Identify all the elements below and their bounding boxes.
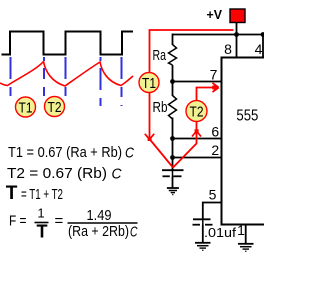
capacitor C lead between plates [172,170,174,177]
svg-text:=: = [55,213,64,230]
resistor Rb [169,96,177,120]
svg-text:4: 4 [255,41,263,57]
svg-text:5: 5 [209,187,217,203]
formula T2 = 0.67 (Rb) C [7,165,122,183]
svg-text:C: C [130,223,138,240]
svg-text:.01uf: .01uf [204,225,236,240]
junction dot (pin 6 node) [170,136,175,141]
wire: capacitor to ground [172,177,174,189]
output square waveform [2,32,134,55]
svg-text:1.49: 1.49 [87,207,112,224]
T2 discharge current path (red) [173,88,218,168]
capacitor .01uf top plate [193,218,211,220]
timing dashed line t4 [121,57,123,106]
wire: .01uf to ground [202,225,204,243]
timing dashed line t1 [43,57,45,96]
timing dashed line t2 [65,57,67,96]
pin 4 stub [262,35,264,58]
wire: Rb to capacitor C [172,118,174,171]
svg-text:F =: F = [9,213,27,230]
capacitor C (timing) top plate [162,169,184,171]
pin 1 stub [245,225,247,244]
svg-text:7: 7 [210,67,218,83]
svg-text:T1 = 0.67 (Ra + Rb): T1 = 0.67 (Ra + Rb) [8,144,122,161]
svg-text:Rb: Rb [153,99,168,116]
junction dot (pin 7 node) [170,79,175,84]
label T2 (discharge interval) [45,97,65,117]
formula F = 1/T = 1.49/((Ra+2Rb)C) [9,206,138,242]
svg-text:T: T [37,222,48,242]
svg-text:C: C [125,145,134,162]
label T1 (charge interval) [16,97,36,117]
capacitor .01uf bottom plate [193,224,201,226]
svg-text:2: 2 [211,142,219,158]
capacitor C (timing) bottom plate [163,175,170,177]
wire: pin 6 [173,138,222,140]
wire: Ra to Rb [172,65,174,96]
junction dot (pin 2 node) [170,155,175,160]
svg-text:T2: T2 [48,99,62,116]
svg-text:Ra: Ra [153,47,167,64]
svg-text:T: T [6,183,18,204]
wire: pin 2 [173,157,222,159]
svg-text:8: 8 [224,41,232,57]
formula T = T1 + T2 [6,183,63,204]
T2 current arrowhead (right, into pin 7) [213,83,219,92]
svg-text:T1: T1 [142,75,156,92]
resistor Ra [169,45,177,66]
label T2 (discharge current) [186,101,207,122]
pin 5 wire [203,203,222,220]
svg-text:6: 6 [211,124,219,140]
ground (.01uf cap) [195,243,211,251]
wire: top rail [173,34,264,36]
T1 charge current path (red) [150,30,234,168]
svg-text:1: 1 [237,222,245,238]
timing dashed line t0 [10,57,12,96]
wire: pin 7 [173,81,222,83]
svg-text:1: 1 [37,206,44,221]
junction dot (+V / pin 8) [234,32,239,37]
ground (timing cap) [167,188,179,195]
svg-text:= T1 + T2: = T1 + T2 [21,186,63,203]
junction dot (pin 4) [261,32,266,37]
T2 current arrowhead (up) [192,131,201,137]
wire: Ra top stub [172,34,174,46]
+V terminal red square [230,9,245,23]
svg-text:(Ra + 2Rb): (Ra + 2Rb) [68,223,129,240]
capacitor .01uf lead between plates [202,219,204,225]
svg-text:C: C [112,166,122,183]
label T1 (charge current) [139,73,159,93]
svg-text:T2: T2 [190,104,204,121]
timing dashed line t3 [100,57,102,106]
wire: +V square to top rail [236,23,238,35]
svg-text:T2 = 0.67 (Rb): T2 = 0.67 (Rb) [7,165,107,182]
555 IC body [222,58,265,225]
svg-text:555: 555 [236,108,258,125]
svg-text:+V: +V [207,7,223,22]
formula T1 = 0.67 (Ra + Rb) C [8,144,134,162]
capacitor voltage waveform [0,62,133,87]
T1 current arrowhead (down) [145,134,154,140]
pin 8 stub [236,35,238,58]
svg-text:T1: T1 [19,100,33,117]
ground (pin 1) [238,244,254,252]
